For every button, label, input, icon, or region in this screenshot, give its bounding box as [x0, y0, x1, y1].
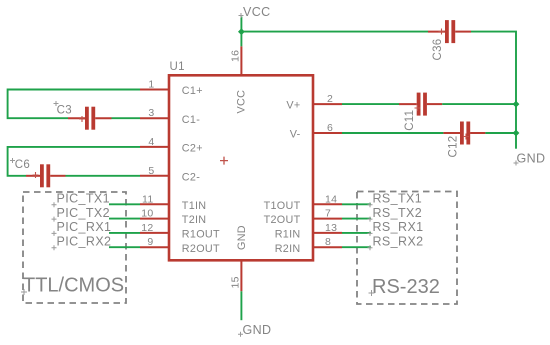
- svg-text:V-: V-: [290, 129, 301, 141]
- pin 12 number: [141, 222, 153, 234]
- svg-text:C3: C3: [57, 105, 72, 117]
- svg-text:C36: C36: [432, 39, 444, 61]
- wire pin 15 to GND: [240, 291, 242, 320]
- pin 1 stub: [140, 89, 169, 91]
- GND supply symbol (right): [514, 152, 546, 166]
- pin name T2IN: [182, 214, 207, 226]
- pin name C2+: [182, 143, 203, 155]
- svg-text:R2OUT: R2OUT: [182, 243, 220, 255]
- pin 9 stub: [140, 246, 169, 248]
- svg-text:5: 5: [148, 165, 154, 177]
- junction at VCC node: [238, 28, 245, 35]
- svg-text:C1+: C1+: [182, 85, 203, 97]
- svg-text:6: 6: [327, 122, 333, 134]
- svg-text:9: 9: [147, 236, 153, 248]
- pin 16 stub: [240, 46, 242, 75]
- pin name R2IN: [275, 243, 301, 255]
- pin 10 stub: [140, 218, 169, 220]
- wire C6 right pin to pin 5: [66, 175, 141, 177]
- pin 8 number: [325, 236, 331, 248]
- capacitor C36 label (rotated): [432, 39, 444, 61]
- svg-text:C1-: C1-: [182, 114, 200, 126]
- pin name C2-: [182, 171, 200, 183]
- wire net C1+ loop (pin1 to C3 left side): [8, 90, 140, 119]
- svg-text:13: 13: [325, 222, 337, 234]
- pin 14 number: [325, 193, 337, 205]
- wire C11 right pin to GND rail: [442, 103, 516, 105]
- TTL/CMOS region label: [21, 275, 124, 297]
- capacitor C12: [443, 122, 485, 145]
- pin name V+: [286, 100, 300, 112]
- svg-text:C12: C12: [447, 136, 459, 158]
- net label RS_TX2: [368, 206, 423, 222]
- svg-text:T2OUT: T2OUT: [264, 214, 301, 226]
- pin 6 stub: [313, 132, 342, 134]
- svg-text:TTL/CMOS: TTL/CMOS: [23, 275, 124, 297]
- pin 3 stub: [140, 117, 169, 119]
- pin 11 number: [142, 193, 154, 205]
- RS-232 dashed region box: [357, 192, 457, 305]
- pin name R1OUT: [182, 229, 220, 241]
- pin 7 number: [325, 208, 331, 220]
- svg-text:T2IN: T2IN: [182, 214, 207, 226]
- svg-text:R2IN: R2IN: [275, 243, 301, 255]
- svg-text:T1OUT: T1OUT: [264, 200, 301, 212]
- wire PIC_TX2 to pin 10: [109, 218, 140, 220]
- wire PIC_RX1 to pin 12: [109, 232, 140, 234]
- svg-text:12: 12: [141, 222, 153, 234]
- net label PIC_TX2: [52, 206, 111, 222]
- svg-text:4: 4: [148, 136, 154, 148]
- svg-text:V+: V+: [286, 100, 300, 112]
- pin name VCC (rotated): [236, 90, 248, 114]
- svg-text:GND: GND: [236, 225, 248, 250]
- pin 11 stub: [140, 203, 169, 205]
- pin name C1+: [182, 85, 203, 97]
- pin 15 number (rotated): [230, 276, 242, 288]
- svg-text:16: 16: [230, 50, 242, 62]
- svg-text:11: 11: [142, 193, 154, 205]
- wire pin 14 to RS_TX1: [342, 203, 371, 205]
- svg-text:15: 15: [230, 276, 242, 288]
- pin 1 number: [148, 79, 154, 91]
- capacitor C3: [68, 107, 112, 130]
- wire net C2+ (pin4 to left corner): [8, 147, 140, 176]
- svg-text:2: 2: [327, 93, 333, 105]
- capacitor C36: [428, 20, 471, 43]
- pin 14 stub: [313, 203, 342, 205]
- pin 13 number: [325, 222, 337, 234]
- wire PIC_TX1 to pin 11: [109, 203, 140, 205]
- pin 15 stub: [240, 260, 242, 291]
- svg-text:PIC_TX2: PIC_TX2: [57, 206, 111, 220]
- svg-text:PIC_RX1: PIC_RX1: [57, 220, 112, 234]
- svg-text:RS_RX2: RS_RX2: [373, 234, 424, 248]
- wire pin 8 to RS_RX2: [342, 246, 371, 248]
- svg-text:RS-232: RS-232: [372, 276, 440, 298]
- wire VCC node to C36 left pin: [241, 31, 428, 33]
- pin 8 stub: [313, 246, 342, 248]
- svg-text:RS_TX1: RS_TX1: [373, 192, 423, 206]
- net label RS_RX1: [368, 220, 424, 236]
- net label RS_RX2: [368, 234, 424, 250]
- IC U1 body: [169, 75, 313, 260]
- RS-232 region label: [369, 276, 440, 298]
- svg-text:C2-: C2-: [182, 171, 200, 183]
- TTL/CMOS dashed region box: [23, 192, 126, 303]
- svg-text:10: 10: [141, 208, 153, 220]
- svg-text:C11: C11: [404, 110, 416, 131]
- VCC supply symbol: [239, 5, 271, 46]
- capacitor C3 label: [54, 101, 72, 117]
- pin name T1OUT: [264, 200, 301, 212]
- wire C36 right pin to GND rail corner: [471, 32, 516, 104]
- pin 9 number: [147, 236, 153, 248]
- pin 6 number: [327, 122, 333, 134]
- pin name C1-: [182, 114, 200, 126]
- svg-text:1: 1: [148, 79, 154, 91]
- pin name GND (rotated): [236, 225, 248, 250]
- pin 3 number: [148, 107, 154, 119]
- pin name R2OUT: [182, 243, 220, 255]
- pin 5 number: [148, 165, 154, 177]
- svg-text:VCC: VCC: [243, 5, 271, 19]
- wire pin6 to C12: [342, 132, 443, 134]
- svg-text:14: 14: [325, 193, 337, 205]
- wire C3 right pin to pin 3: [112, 117, 141, 119]
- pin 5 stub: [140, 175, 169, 177]
- svg-text:GND: GND: [517, 152, 546, 166]
- svg-text:R1OUT: R1OUT: [182, 229, 220, 241]
- svg-text:8: 8: [325, 236, 331, 248]
- capacitor C6 label: [10, 158, 30, 171]
- pin 13 stub: [313, 232, 342, 234]
- net label PIC_RX2: [52, 234, 112, 250]
- svg-text:U1: U1: [170, 61, 185, 73]
- junction C12/GND rail: [513, 130, 520, 137]
- svg-text:R1IN: R1IN: [275, 229, 301, 241]
- GND rail lower segment: [515, 104, 517, 149]
- capacitor C12 label (rotated): [447, 136, 459, 158]
- pin 4 stub: [140, 146, 169, 148]
- svg-text:PIC_TX1: PIC_TX1: [57, 192, 111, 206]
- svg-text:RS_RX1: RS_RX1: [373, 220, 424, 234]
- pin name T1IN: [182, 200, 207, 212]
- pin 4 number: [148, 136, 154, 148]
- net label RS_TX1: [368, 192, 423, 208]
- pin 12 stub: [140, 232, 169, 234]
- svg-text:PIC_RX2: PIC_RX2: [57, 234, 112, 248]
- wire pin 13 to RS_RX1: [342, 232, 371, 234]
- wire pin2 to C11: [342, 103, 399, 105]
- capacitor C6: [26, 164, 66, 187]
- pin 2 stub: [313, 103, 342, 105]
- capacitor C11: [399, 93, 442, 116]
- pin name R1IN: [275, 229, 301, 241]
- svg-text:3: 3: [148, 107, 154, 119]
- svg-text:GND: GND: [243, 323, 272, 337]
- svg-text:RS_TX2: RS_TX2: [373, 206, 423, 220]
- pin name V-: [290, 129, 301, 141]
- junction C11/GND rail: [513, 101, 520, 108]
- capacitor C11 label (rotated): [404, 110, 416, 131]
- IC U1 reference label: [170, 61, 185, 73]
- net label PIC_TX1: [52, 192, 111, 208]
- net label PIC_RX1: [52, 220, 112, 236]
- svg-text:C2+: C2+: [182, 143, 203, 155]
- pin 10 number: [141, 208, 153, 220]
- pin name T2OUT: [264, 214, 301, 226]
- pin 2 number: [327, 93, 333, 105]
- svg-text:7: 7: [325, 208, 331, 220]
- wire pin 7 to RS_TX2: [342, 218, 371, 220]
- wire PIC_RX2 to pin 9: [109, 246, 140, 248]
- svg-text:VCC: VCC: [236, 90, 248, 114]
- GND supply symbol (bottom): [238, 323, 271, 337]
- svg-text:C6: C6: [15, 159, 30, 171]
- svg-text:T1IN: T1IN: [182, 200, 207, 212]
- pin 7 stub: [313, 218, 342, 220]
- pin 16 number (rotated): [230, 50, 242, 62]
- wire C12 right pin to GND rail: [485, 132, 516, 134]
